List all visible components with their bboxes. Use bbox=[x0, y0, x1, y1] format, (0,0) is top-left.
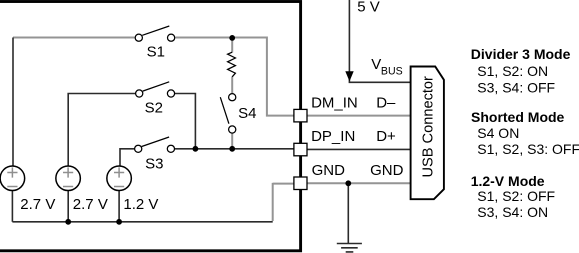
svg-text:S4: S4 bbox=[238, 105, 256, 122]
svg-text:2.7 V: 2.7 V bbox=[20, 196, 55, 213]
wire S1 row right to DM pin (gray) bbox=[175, 38, 294, 116]
wire GND pin internal to bottom rail (gray) bbox=[273, 183, 294, 221]
voltage source V3 1.2V bbox=[107, 166, 132, 191]
switch S2 bbox=[136, 82, 175, 97]
wire resistor bottom lead (gray) bbox=[231, 77, 233, 94]
svg-text:S1: S1 bbox=[147, 43, 165, 60]
svg-text:V: V bbox=[371, 56, 381, 73]
junction rail at V3 bbox=[116, 219, 122, 225]
resistor R1 zigzag bbox=[228, 52, 236, 77]
svg-text:2.7 V: 2.7 V bbox=[73, 196, 108, 213]
wire GND pin to connector GND (gray) bbox=[307, 182, 410, 184]
wire 5V supply to VBUS bbox=[349, 0, 410, 82]
wire source V2 bottom lead bbox=[67, 190, 69, 222]
wire S4 to DP row stub (gray) bbox=[231, 133, 233, 148]
wire GND drop to earth bbox=[347, 183, 349, 243]
svg-text:5 V: 5 V bbox=[357, 0, 380, 16]
svg-text:DP_IN: DP_IN bbox=[311, 128, 355, 145]
svg-text:Divider 3 Mode: Divider 3 Mode bbox=[471, 46, 571, 62]
wire source V3 bottom lead bbox=[118, 190, 120, 221]
device box (IC outline) bbox=[0, 2, 301, 251]
svg-text:D–: D– bbox=[376, 94, 396, 111]
wire S1 row left (gray) bbox=[13, 37, 135, 39]
wire source V1 top vertical bbox=[12, 38, 14, 167]
USB connector J1 bbox=[411, 67, 444, 200]
pin GND square bbox=[294, 177, 307, 190]
svg-text:Shorted Mode: Shorted Mode bbox=[471, 109, 565, 125]
pin DP_IN square bbox=[294, 143, 307, 156]
wire S2 right down to DP row bbox=[175, 94, 195, 149]
svg-text:DM_IN: DM_IN bbox=[311, 94, 358, 111]
svg-text:1.2-V Mode: 1.2-V Mode bbox=[471, 173, 545, 189]
svg-text:1.2 V: 1.2 V bbox=[123, 196, 158, 213]
svg-text:GND: GND bbox=[370, 162, 404, 179]
svg-text:S3: S3 bbox=[145, 156, 163, 173]
wire DM_IN to D- (gray) bbox=[307, 115, 410, 117]
wire bottom ground rail bbox=[12, 221, 272, 223]
svg-text:BUS: BUS bbox=[381, 66, 403, 78]
svg-text:S1, S2: OFF: S1, S2: OFF bbox=[477, 188, 555, 204]
switch S3 bbox=[135, 137, 175, 152]
junction rail at V2 bbox=[65, 219, 71, 225]
voltage source V1 2.7V bbox=[0, 166, 25, 191]
wire source V1 bottom lead bbox=[11, 190, 13, 221]
wire S2 left + source V2 vertical bbox=[68, 94, 135, 167]
switch S4 bbox=[220, 94, 235, 134]
svg-text:S3, S4: ON: S3, S4: ON bbox=[477, 204, 548, 220]
svg-text:GND: GND bbox=[312, 162, 346, 179]
svg-text:D+: D+ bbox=[376, 128, 396, 145]
wire resistor top lead (gray) bbox=[231, 39, 233, 53]
junction on S1 row at resistor bbox=[229, 35, 235, 41]
wire DP_IN to D+ bbox=[307, 148, 410, 150]
junction GND wire at earth drop bbox=[345, 180, 351, 186]
arrowhead on 5V supply bbox=[345, 71, 353, 81]
svg-text:S1, S2: ON: S1, S2: ON bbox=[477, 63, 548, 79]
voltage source V2 2.7V bbox=[56, 166, 81, 191]
pin DM_IN square bbox=[294, 109, 307, 122]
svg-text:USB Connector: USB Connector bbox=[420, 76, 436, 178]
svg-text:S3, S4: OFF: S3, S4: OFF bbox=[477, 79, 555, 95]
wire DP row inside box bbox=[175, 148, 294, 150]
ground symbol bbox=[337, 244, 362, 252]
wire S3 left + source V3 vertical bbox=[120, 149, 135, 167]
switch S1 bbox=[135, 26, 175, 41]
junction on DP row at S4 branch bbox=[229, 146, 235, 152]
svg-text:S1, S2, S3: OFF: S1, S2, S3: OFF bbox=[477, 141, 579, 157]
svg-text:S4 ON: S4 ON bbox=[477, 125, 519, 141]
junction on DP row at S2 branch bbox=[193, 146, 199, 152]
svg-text:S2: S2 bbox=[145, 99, 163, 116]
